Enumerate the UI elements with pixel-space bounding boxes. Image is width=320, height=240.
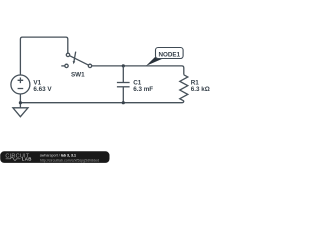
label C1 6.3 mF — [133, 80, 153, 93]
node junction top of capacitor — [122, 64, 125, 67]
svg-text:SW1: SW1 — [71, 72, 85, 79]
svg-text:6.3 kΩ: 6.3 kΩ — [191, 86, 210, 93]
switch SW1 arrowhead — [73, 61, 76, 64]
svg-text:6.63 V: 6.63 V — [33, 86, 52, 93]
svg-text:awharaport / lab 3, 3.1: awharaport / lab 3, 3.1 — [40, 153, 76, 157]
ground — [13, 103, 28, 117]
switch SW1 — [61, 52, 91, 68]
voltage source V1 — [11, 75, 30, 94]
wire top rail from V1 to SW1 — [20, 37, 67, 75]
capacitor C1 — [117, 66, 130, 103]
label R1 6.3 kOhm — [191, 80, 210, 93]
svg-text:http://circuitlab.com/c/xf5spg: http://circuitlab.com/c/xf5spg5dh8ded — [40, 158, 99, 162]
node flag NODE1 tail — [146, 56, 162, 66]
wire bottom rail — [20, 101, 183, 103]
node junction bottom of capacitor — [122, 101, 125, 104]
wire from SW1 common to resistor top — [92, 66, 184, 75]
svg-text:LAB: LAB — [22, 157, 32, 162]
node junction at V1 bottom — [19, 101, 22, 104]
svg-text:6.3 mF: 6.3 mF — [133, 86, 153, 93]
resistor R1 — [180, 75, 188, 101]
node flag NODE1 box — [156, 48, 184, 59]
label V1 6.63 V — [33, 80, 52, 93]
wire V1 bottom lead — [19, 94, 21, 103]
watermark bar — [0, 151, 109, 163]
svg-text:NODE1: NODE1 — [158, 51, 180, 58]
watermark logo waveform — [6, 157, 21, 160]
